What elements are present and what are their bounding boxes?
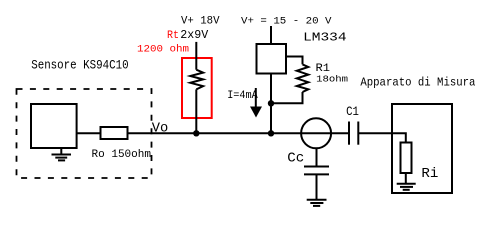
resistor R1 (zigzag) (297, 64, 309, 92)
svg-text:Ro 150ohm: Ro 150ohm (92, 149, 152, 161)
Apparato di Misura box (392, 104, 452, 193)
svg-text:Sensore KS94C10: Sensore KS94C10 (31, 59, 129, 73)
wire V+ to LM334 (270, 26, 272, 44)
junction dot LM334/main wire (268, 130, 274, 136)
wire Ro to circle (main node Vo wire) (128, 132, 350, 134)
svg-text:I=4mA: I=4mA (227, 90, 258, 102)
svg-text:Cc: Cc (287, 151, 304, 167)
wire Rt top (195, 42, 197, 70)
capacitor C1 (349, 122, 358, 145)
wire LM334 bottom to main wire (270, 74, 272, 134)
resistor Rt (zigzag) (190, 70, 203, 90)
LM334 block (257, 44, 287, 74)
svg-text:V+ 18V: V+ 18V (181, 16, 220, 28)
wire LM334 to R1 top (286, 57, 303, 65)
svg-text:Ri: Ri (421, 166, 438, 182)
red highlight box around Rt (182, 58, 212, 118)
svg-text:2x9V: 2x9V (180, 29, 208, 42)
svg-text:Apparato di Misura: Apparato di Misura (360, 76, 475, 90)
dashed box Sensore (17, 89, 152, 178)
resistor Ro (box style) (101, 127, 128, 139)
wire Ri to ground (405, 173, 407, 184)
current arrow I=4mA (255, 88, 257, 109)
wire sensor to Ro (77, 132, 101, 134)
ground (sensor) (52, 148, 72, 160)
sensor block (square) (31, 104, 77, 148)
junction dot Rt/main wire (193, 130, 199, 136)
svg-text:LM334: LM334 (303, 31, 347, 45)
wire Cc to ground (316, 174, 318, 199)
resistor Ri (box style) (401, 143, 412, 174)
wire R1 bottom to LM334 branch (271, 92, 303, 103)
ground (Cc) (307, 200, 327, 206)
svg-text:18ohm: 18ohm (316, 74, 348, 85)
summing node circle Cc (301, 118, 331, 148)
capacitor Cc (304, 167, 329, 175)
svg-text:V+ = 15 - 20 V: V+ = 15 - 20 V (241, 15, 332, 27)
wire Rt bottom (195, 89, 197, 133)
ground (Ri) (397, 184, 416, 190)
svg-text:C1: C1 (346, 104, 359, 119)
junction dot R1/LM334 wire (268, 100, 274, 106)
wire C1 to Ri (358, 133, 406, 142)
svg-text:1200 ohm: 1200 ohm (137, 44, 189, 56)
wire circle to Cc cap (316, 148, 318, 167)
svg-text:Rt: Rt (167, 30, 179, 42)
